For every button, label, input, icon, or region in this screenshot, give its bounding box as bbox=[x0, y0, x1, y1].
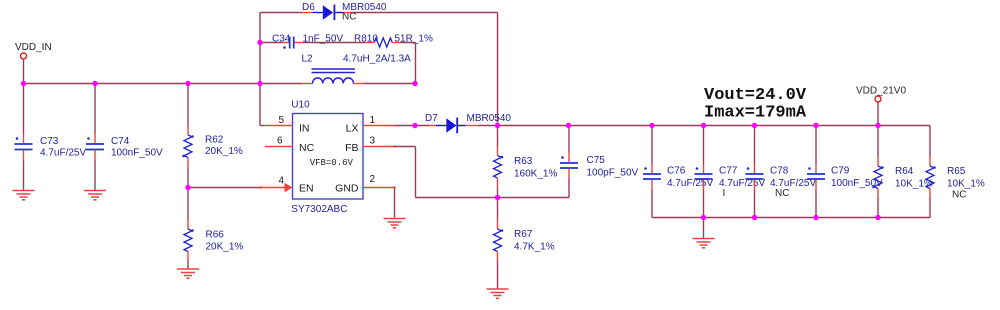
wire D6 loop left vertical bbox=[259, 13, 261, 84]
svg-text:C76: C76 bbox=[667, 166, 686, 177]
pin 1 LX bbox=[363, 125, 394, 127]
svg-text:NC: NC bbox=[299, 142, 315, 154]
capacitor C75 bbox=[568, 126, 570, 154]
pin arrow EN bbox=[285, 183, 293, 192]
op-amp U10 box bbox=[293, 114, 364, 200]
wire FB node bbox=[416, 197, 570, 199]
svg-text:4.7uF/25V: 4.7uF/25V bbox=[40, 147, 86, 158]
svg-text:160K_1%: 160K_1% bbox=[514, 169, 557, 180]
svg-text:C78: C78 bbox=[770, 166, 789, 177]
svg-text:Vout=24.0V: Vout=24.0V bbox=[704, 86, 807, 105]
resistor R810 bbox=[374, 38, 392, 47]
capacitor C73 bbox=[23, 84, 25, 134]
wire input rail bbox=[24, 83, 302, 85]
svg-text:C77: C77 bbox=[719, 166, 738, 177]
svg-text:C74: C74 bbox=[111, 136, 130, 147]
capacitor C34 bbox=[290, 37, 294, 49]
svg-text:VDD_21V0: VDD_21V0 bbox=[856, 86, 906, 97]
resistor R65 bbox=[929, 126, 931, 157]
svg-text:6: 6 bbox=[277, 136, 283, 147]
svg-text:VFB=0.6V: VFB=0.6V bbox=[310, 158, 354, 168]
capacitor C76 bbox=[651, 126, 653, 165]
wire D6 loop right vertical bbox=[497, 13, 499, 126]
svg-text:3: 3 bbox=[370, 136, 376, 147]
capacitor C74 bbox=[94, 84, 96, 134]
wire inductor to LX node bbox=[364, 83, 415, 85]
svg-text:IN: IN bbox=[299, 123, 310, 135]
svg-text:1: 1 bbox=[370, 115, 376, 126]
wire output rail bbox=[498, 125, 931, 127]
wire VDD_IN drop bbox=[23, 60, 25, 84]
svg-text:100nF_50V: 100nF_50V bbox=[111, 147, 163, 158]
svg-text:MBR0540: MBR0540 bbox=[467, 113, 512, 124]
ground R66 bbox=[177, 269, 199, 278]
svg-text:D7: D7 bbox=[425, 113, 438, 124]
terminal VDD_21V0 bbox=[875, 96, 881, 102]
capacitor C77 bbox=[703, 126, 705, 165]
svg-text:NC: NC bbox=[342, 12, 356, 23]
pin 2 GND bbox=[363, 187, 395, 189]
svg-text:NC: NC bbox=[952, 190, 966, 201]
resistor R66 bbox=[187, 188, 189, 220]
ground U10 GND bbox=[384, 219, 406, 228]
pin 5 IN bbox=[259, 84, 261, 126]
svg-text:R64: R64 bbox=[895, 166, 914, 177]
svg-text:1nF_50V: 1nF_50V bbox=[303, 33, 344, 44]
capacitor C78 bbox=[754, 126, 756, 165]
capacitor C79 bbox=[815, 126, 817, 165]
terminal VDD_IN bbox=[21, 53, 27, 59]
svg-text:4.7uH_2A/1.3A: 4.7uH_2A/1.3A bbox=[343, 54, 411, 65]
svg-text:R62: R62 bbox=[205, 135, 224, 146]
svg-text:20K_1%: 20K_1% bbox=[205, 146, 243, 157]
svg-text:EN: EN bbox=[299, 183, 314, 195]
wire LX to D7 bbox=[429, 125, 436, 127]
svg-text:Imax=179mA: Imax=179mA bbox=[704, 104, 807, 123]
svg-text:R67: R67 bbox=[514, 229, 533, 240]
svg-text:I: I bbox=[723, 188, 726, 199]
svg-text:4: 4 bbox=[279, 176, 285, 187]
ground C73 bbox=[13, 191, 35, 200]
resistor R67 bbox=[497, 198, 499, 220]
svg-text:10K_1%: 10K_1% bbox=[947, 179, 985, 190]
diode D6 bbox=[313, 12, 323, 14]
wire D6 top bbox=[260, 12, 302, 14]
wire snubber row bbox=[260, 42, 282, 44]
svg-text:R810: R810 bbox=[354, 33, 378, 44]
resistor R62 bbox=[187, 84, 189, 126]
ground C74 bbox=[84, 191, 106, 200]
wire output bottom rail bbox=[652, 217, 930, 219]
svg-text:L2: L2 bbox=[302, 54, 314, 65]
ground R67 bbox=[487, 289, 509, 298]
svg-text:GND: GND bbox=[335, 183, 359, 195]
svg-text:C34: C34 bbox=[272, 33, 291, 44]
svg-text:20K_1%: 20K_1% bbox=[206, 242, 244, 253]
pin 3 FB bbox=[363, 146, 395, 148]
svg-text:U10: U10 bbox=[291, 100, 310, 111]
svg-text:C79: C79 bbox=[831, 166, 850, 177]
svg-text:NC: NC bbox=[775, 188, 789, 199]
wire inductor left stub bbox=[302, 83, 313, 85]
svg-text:R65: R65 bbox=[947, 166, 966, 177]
svg-text:5: 5 bbox=[279, 115, 285, 126]
wire EN net bbox=[188, 187, 261, 189]
ground output bbox=[703, 218, 705, 239]
pin 6 NC bbox=[265, 146, 293, 148]
svg-text:4.7K_1%: 4.7K_1% bbox=[514, 242, 555, 253]
svg-text:C73: C73 bbox=[40, 136, 59, 147]
svg-text:R63: R63 bbox=[514, 156, 533, 167]
svg-text:2: 2 bbox=[370, 174, 376, 185]
svg-text:LX: LX bbox=[346, 123, 359, 135]
svg-text:R66: R66 bbox=[206, 230, 225, 241]
diode D7 bbox=[436, 125, 446, 127]
svg-text:VDD_IN: VDD_IN bbox=[15, 42, 52, 53]
inductor L2 bbox=[312, 69, 356, 84]
resistor R64 bbox=[877, 126, 879, 157]
svg-text:D6: D6 bbox=[302, 2, 315, 13]
svg-text:FB: FB bbox=[345, 142, 358, 154]
resistor R63 bbox=[497, 126, 499, 147]
wire inductor right stub bbox=[354, 83, 365, 85]
wire VDD_21V0 drop bbox=[877, 103, 879, 126]
svg-text:SY7302ABC: SY7302ABC bbox=[291, 204, 347, 215]
svg-text:100pF_50V: 100pF_50V bbox=[587, 168, 639, 179]
svg-text:C75: C75 bbox=[587, 155, 606, 166]
